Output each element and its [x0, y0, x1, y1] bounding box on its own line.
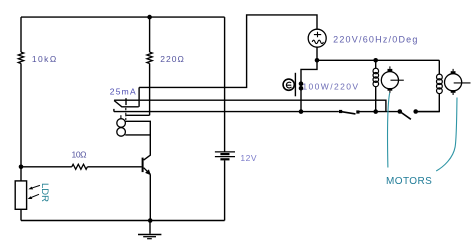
resistor R1 10kOhm	[18, 52, 23, 63]
motor M2 brush bottom	[451, 90, 456, 93]
node motor1 bottom junction	[373, 109, 378, 114]
svg-text:220V/60Hz/0Deg: 220V/60Hz/0Deg	[333, 35, 417, 45]
LDR light arrow 1	[31, 185, 40, 188]
wire AC hot rail	[317, 59, 439, 61]
wire A to AC source	[139, 15, 317, 88]
switch S2 pivot	[398, 109, 403, 114]
node AC junction	[315, 58, 320, 63]
node lamp bottom junction	[299, 109, 304, 114]
motor M2 circle	[445, 74, 462, 91]
AC source V1 circle	[308, 29, 326, 47]
motor M2 brush top	[451, 71, 456, 74]
wire AC bottom lead	[316, 47, 318, 60]
wire 220 branch upper	[149, 17, 151, 52]
battery BT1 plate short 1	[220, 153, 229, 155]
switch S1 contact left	[339, 110, 342, 113]
wire right rail upper	[224, 17, 226, 152]
wire L1 relay to motors	[140, 100, 386, 111]
switch S1 contact right	[356, 110, 359, 113]
battery BT1 plate short 2	[220, 158, 229, 160]
motor M1 circle	[381, 72, 398, 89]
node divider junction	[19, 165, 24, 170]
wire lamp rail	[301, 60, 317, 111]
relay lever jog	[138, 87, 140, 106]
label MOTORS pointer line 1	[388, 93, 390, 168]
wire base left	[21, 166, 72, 168]
label MOTORS pointer line 2	[436, 98, 457, 172]
lamp X1 envelope	[283, 79, 294, 90]
switch S2 contact	[413, 109, 418, 114]
motor M1 brush top	[388, 69, 393, 72]
relay coil loop 2	[117, 128, 126, 137]
wire emitter down	[149, 174, 151, 220]
wire right rail lower	[224, 160, 226, 220]
relay linkage bottom wire	[126, 114, 149, 116]
wire S2 to motor2	[418, 111, 440, 113]
motor M1 terminal stubs	[389, 66, 391, 93]
resistor R2 220Ohm	[147, 52, 152, 63]
inductor L1 winding	[373, 68, 379, 87]
lamp filament	[286, 82, 291, 88]
wire LDR bottom lead	[20, 209, 22, 220]
wire S1 to motor1 junction	[360, 111, 376, 113]
wire coil bottom	[125, 134, 150, 136]
wire base right	[87, 166, 141, 168]
svg-text:MOTORS: MOTORS	[386, 176, 432, 187]
wire left rail upper	[20, 17, 22, 52]
switch S1 lever	[342, 112, 356, 114]
relay moving contact tick	[125, 98, 127, 105]
svg-text:12V: 12V	[240, 153, 257, 163]
node motor1 top junction	[373, 58, 378, 63]
wire motor1 junction to switch S2	[376, 111, 398, 113]
wire L2 relay to lamp line	[114, 109, 339, 112]
AC source plus sign	[314, 32, 321, 37]
wire bottom rail	[21, 220, 225, 222]
wire motor1 branch bottom	[375, 86, 377, 111]
transistor Q1 bar	[142, 158, 144, 173]
wire coil top to collector column	[125, 121, 150, 160]
relay linkage dashes	[125, 108, 127, 120]
LDR light arrow 2	[30, 194, 39, 198]
wire motor2 branch bottom	[418, 93, 440, 111]
LDR photoresistor body	[15, 181, 26, 209]
battery BT1 plate long 1	[215, 151, 235, 153]
relay contact fixed line	[114, 99, 140, 101]
AC source sine	[312, 40, 323, 43]
motor M1 brush bottom	[388, 88, 393, 91]
wire 220 branch lower vertical	[149, 63, 151, 115]
svg-text:25mA: 25mA	[110, 87, 136, 97]
inductor L2 winding	[437, 74, 443, 94]
svg-text:10Ω: 10Ω	[72, 149, 87, 159]
svg-text:220Ω: 220Ω	[160, 54, 184, 64]
node lamp terminal 2	[299, 86, 304, 91]
ground	[149, 221, 151, 234]
node top junction	[147, 15, 152, 20]
wire top rail 12V	[21, 16, 225, 18]
motor M1 shaft	[391, 79, 404, 81]
battery BT1 plate long 2	[215, 156, 235, 158]
lamp bar	[294, 73, 296, 97]
transistor Q1 emitter	[144, 168, 151, 175]
wire left rail mid	[20, 63, 22, 180]
node lamp terminal 1	[299, 81, 304, 86]
svg-text:LDR: LDR	[39, 183, 50, 202]
wire motor1 branch top	[375, 60, 377, 69]
resistor R3 10Ohm	[72, 164, 88, 169]
node emitter-ground junction	[148, 218, 153, 223]
svg-text:100W/220V: 100W/220V	[302, 81, 358, 91]
svg-text:10kΩ: 10kΩ	[32, 54, 56, 64]
switch S2 lever	[400, 112, 411, 120]
motor M2 terminal stubs	[452, 69, 454, 95]
relay lever	[114, 101, 139, 107]
wire motor2 branch	[438, 60, 440, 74]
motor M2 shaft	[454, 82, 471, 84]
relay coil stub	[120, 115, 122, 118]
relay coil loop 1	[117, 119, 126, 128]
